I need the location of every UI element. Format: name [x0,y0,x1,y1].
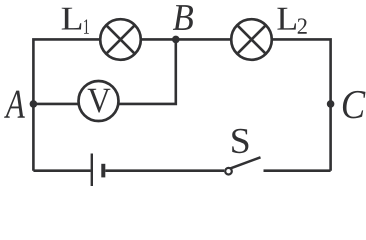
switch S pivot [225,168,232,175]
battery short thick plate (negative) [101,164,105,178]
node B [172,36,180,44]
voltmeter V [79,81,119,121]
label S [232,129,248,153]
wire battery to switch [105,169,224,172]
label B [173,5,193,30]
switch S blade [230,157,261,168]
label L1 [62,8,89,34]
wire L2 to top-right corner and down to C leg [273,39,331,170]
wire switch to bottom-right corner [264,169,331,172]
wire node A to voltmeter [33,103,78,106]
wire L1 to node B to L2 [142,38,231,41]
label A [4,91,25,118]
node C [327,100,335,108]
wire voltmeter to node B riser [120,39,176,104]
label C [343,91,366,119]
node A [30,100,38,108]
lamp L2 [231,19,272,60]
label L2 [277,8,306,34]
lamp L1 [100,19,141,60]
wire bottom-left segment to battery [33,169,90,172]
wire left side (A leg) and top-left segment to L1 [33,39,99,170]
battery long plate (positive) [91,154,93,187]
